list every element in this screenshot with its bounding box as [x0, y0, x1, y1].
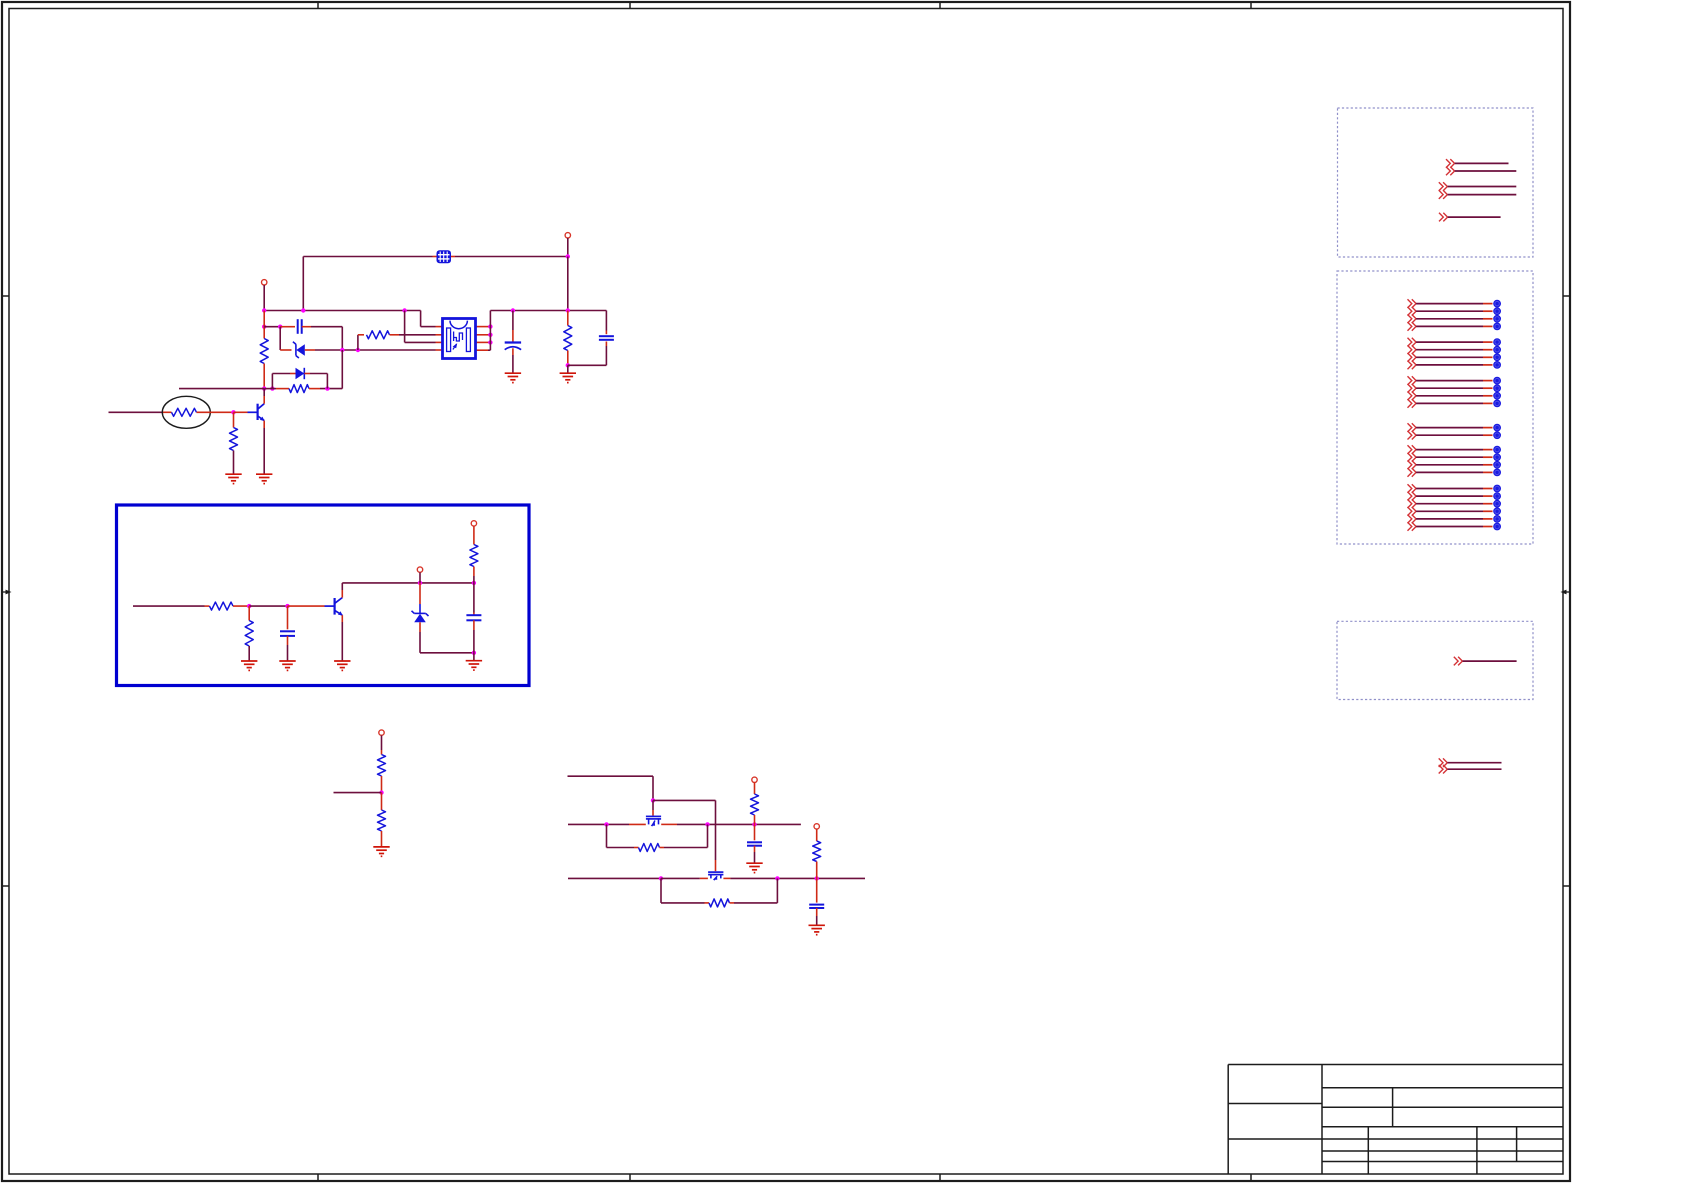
wire to gnd: [567, 365, 569, 373]
wire C4 down: [605, 346, 607, 365]
pin row 3 chevron: [1408, 315, 1417, 324]
port P7: [814, 824, 819, 829]
Q1 emitter stub: [263, 421, 265, 428]
resistor R6: [289, 385, 309, 393]
vertical zener row to base row: [341, 350, 343, 389]
pin dot row 10: [1493, 384, 1501, 392]
pin row 13 chevron: [1408, 423, 1417, 432]
opto pin4 stub: [436, 349, 443, 351]
junction rail/P2: [262, 308, 266, 312]
junction C5 node: [285, 604, 289, 608]
R7 left stub: [205, 605, 210, 607]
pin stub bead right: [451, 256, 455, 258]
R13 top wire: [754, 783, 756, 794]
pin row 18 chevron: [1408, 468, 1417, 477]
R10 top stub: [381, 750, 383, 755]
junction bottom rail/gnd: [472, 651, 476, 655]
opto right bus vertical: [489, 311, 491, 351]
net stub B1: [1439, 182, 1448, 191]
D3 bottom wire: [419, 632, 421, 653]
pin dot row 2: [1493, 307, 1501, 315]
wire P2 down to rail: [263, 285, 265, 311]
opto pin2 stub: [436, 334, 443, 336]
transistor Q2 NPN: [325, 598, 343, 616]
Q2 base stub: [288, 605, 325, 607]
junction base node: [231, 410, 235, 414]
R9 top wire: [473, 526, 475, 544]
centering arrow left: [2, 591, 8, 593]
pin row 9 chevron: [1408, 376, 1417, 385]
gate feed wire top: [568, 775, 654, 777]
junction D2 loop right: [325, 386, 329, 390]
Q1 collector wire: [263, 389, 265, 396]
wire to opto pin1: [421, 326, 436, 328]
R6 left stub: [276, 388, 289, 390]
C5 bottom stub: [287, 636, 289, 645]
ground R5: [225, 474, 241, 483]
M2 source stub: [700, 877, 708, 879]
ground Q2: [334, 661, 350, 670]
capacitor C1: [298, 319, 302, 334]
C4 bottom stub: [605, 342, 607, 347]
title block: [1228, 1065, 1563, 1175]
M1 gate stub: [652, 810, 654, 816]
ellipse marker around R2: [162, 396, 210, 428]
C7 bottom wire: [754, 852, 756, 863]
base stub: [234, 411, 248, 413]
junction D2 loop left: [270, 386, 274, 390]
R15 top wire: [816, 829, 818, 841]
ground divider: [373, 847, 389, 856]
P3 wire: [419, 572, 421, 583]
resistor R3: [367, 331, 390, 339]
pin dot row 14: [1493, 431, 1501, 439]
resistor R8: [245, 621, 253, 647]
C6 bottom stub: [473, 620, 475, 630]
R2 right stub: [197, 411, 234, 413]
gate2 vertical: [715, 800, 717, 860]
pin dot row 8: [1493, 361, 1501, 369]
junction row3 RC column: [815, 876, 819, 880]
pin dot row 6: [1493, 346, 1501, 354]
zone tick marks top/bottom: [317, 2, 319, 9]
pin dot row 1: [1493, 300, 1501, 308]
D2 right wire: [310, 373, 327, 375]
Q2 collector wire: [341, 583, 343, 590]
M2 gate stub: [715, 860, 717, 871]
wire to C1: [264, 326, 280, 328]
junction divider tap: [379, 790, 383, 794]
R11 top stub: [381, 793, 383, 810]
M1 source stub: [629, 823, 646, 825]
R14 right stub: [730, 902, 735, 904]
junction rail/C3: [511, 308, 515, 312]
row3 wire right: [730, 877, 865, 879]
wire down to zener D1: [279, 327, 281, 350]
wire P1 to bead row: [567, 238, 569, 257]
opto-coupler U1: [443, 319, 476, 359]
wire x568 down to rail: [567, 257, 569, 311]
loop2 bottom right: [734, 902, 777, 904]
wire bead row left: [303, 256, 432, 258]
zener diode D3: [412, 604, 429, 622]
net stub A2: [1446, 167, 1455, 176]
C8 top stub: [816, 878, 818, 902]
D2 left wire: [272, 373, 290, 375]
capacitor C7: [747, 842, 762, 845]
loop2 right vertical: [776, 878, 778, 903]
centering arrow right: [1564, 591, 1570, 593]
loop1 bottom left: [607, 847, 635, 849]
junction rail/bead loop: [301, 308, 305, 312]
junction row3 loop right: [775, 876, 779, 880]
junction opto right bus: [488, 324, 492, 328]
ground R8: [241, 661, 257, 670]
wire rail corner down: [605, 311, 607, 331]
D3 top wire: [419, 583, 421, 604]
Q2 emitter wire: [341, 622, 343, 661]
pin row 20 chevron: [1408, 492, 1417, 501]
resistor R12: [639, 844, 660, 852]
net stub B2: [1439, 190, 1448, 199]
resistor R7: [210, 602, 234, 610]
pin row 8 chevron: [1408, 361, 1417, 370]
junction C1/zener branch: [278, 325, 282, 329]
wire R3 to opto pin2: [399, 334, 436, 336]
R7 right stub: [233, 605, 249, 607]
ground C8: [809, 925, 825, 934]
R5 bottom wire: [233, 451, 235, 475]
wire C4 loop bottom: [568, 364, 607, 366]
pin row 1 chevron: [1408, 299, 1417, 308]
opto right pin4 stub: [476, 349, 488, 351]
capacitor C6: [466, 615, 481, 620]
C6 bottom wire: [473, 630, 475, 653]
wire rail to opto pin3: [404, 311, 406, 343]
junction rail/port P3: [418, 581, 422, 585]
port P3: [417, 567, 422, 572]
R11 bottom stub: [381, 831, 383, 847]
ground C5: [279, 661, 295, 670]
pin row 12 chevron: [1408, 399, 1417, 408]
junction zener row/R3 branch: [356, 348, 360, 352]
pin row 16 chevron: [1408, 453, 1417, 462]
pin stub bead left: [433, 256, 437, 258]
D2 loop right vertical: [326, 374, 328, 389]
opto pin1 stub: [436, 326, 443, 328]
main rail left part: [264, 310, 420, 312]
box input wire: [133, 605, 205, 607]
wire to C5 node: [249, 605, 287, 607]
pin dot row 7: [1493, 353, 1501, 361]
C5 top stub: [287, 606, 289, 629]
C5 bottom wire: [287, 645, 289, 661]
input wire left: [109, 411, 163, 413]
C4 top stub: [605, 331, 607, 335]
port P2: [262, 280, 267, 285]
port P4: [471, 521, 476, 526]
junction zener row/C1 loop: [340, 348, 344, 352]
resistor R5: [230, 428, 238, 451]
junction opto right bus: [488, 333, 492, 337]
resistor R10: [378, 755, 386, 777]
zener row wire to opto pin4: [315, 349, 436, 351]
blue highlight box: [117, 505, 530, 686]
junction C1 branch: [262, 325, 266, 329]
ground box right: [466, 661, 482, 670]
resistor R2 (circled): [172, 408, 197, 416]
pin dot row 19: [1493, 485, 1501, 493]
resistor R13: [751, 794, 759, 815]
D3 bottom stub: [419, 622, 421, 632]
wire rail to C3: [512, 311, 514, 331]
ground C3: [505, 373, 521, 382]
M1 drain stub: [661, 823, 677, 825]
capacitor C5: [280, 631, 295, 636]
C1 left stub: [280, 326, 295, 328]
net stub C1: [1439, 213, 1448, 222]
wire rail to C6: [473, 583, 475, 613]
zener diode D1: [293, 342, 305, 358]
pin dot row 17: [1493, 461, 1501, 469]
R2 left stub: [163, 411, 172, 413]
net stub E2: [1439, 765, 1448, 774]
pin dot row 3: [1493, 315, 1501, 323]
wire to opto pin3: [405, 341, 436, 343]
junction rail/R4: [566, 308, 570, 312]
box bottom rail: [420, 652, 474, 654]
pin dot row 12: [1493, 400, 1501, 408]
loop2 bottom left: [661, 902, 705, 904]
C1 right stub: [302, 326, 311, 328]
wire x303 down to rail: [302, 257, 304, 311]
C7 bottom stub: [754, 846, 756, 852]
C8 bottom wire: [816, 916, 818, 925]
wire C3 to gnd: [512, 355, 514, 373]
D2 anode stub: [290, 373, 296, 375]
ground Q1 emitter: [256, 474, 272, 483]
row2 wire right: [677, 823, 801, 825]
ground R4: [560, 373, 576, 382]
P5 wire: [381, 735, 383, 750]
junction R8 node: [247, 604, 251, 608]
C8 bottom stub: [816, 908, 818, 916]
junction row2 RC column: [752, 822, 756, 826]
pin row 4 chevron: [1408, 322, 1417, 331]
R15 bottom stub: [816, 862, 818, 879]
pin row 17 chevron: [1408, 461, 1417, 470]
net stub D1: [1454, 657, 1463, 666]
M1 gate wire: [652, 800, 654, 810]
pin row 2 chevron: [1408, 307, 1417, 316]
R3 left stub: [358, 334, 364, 336]
dashed box 1: [1338, 108, 1534, 257]
pin dot row 13: [1493, 424, 1501, 432]
pin row 22 chevron: [1408, 507, 1417, 516]
pin dot row 9: [1493, 377, 1501, 385]
loop1 bottom right: [664, 847, 708, 849]
pin dot row 22: [1493, 507, 1501, 515]
pin row 23 chevron: [1408, 515, 1417, 524]
M2 drain stub: [723, 877, 730, 879]
loop1 right vertical: [707, 824, 709, 847]
resistor R14: [709, 899, 730, 907]
pin dot row 21: [1493, 500, 1501, 508]
wire bead row right: [455, 256, 568, 258]
R8 bottom wire: [248, 646, 250, 661]
mosfet M1: [646, 816, 661, 826]
junction rail/right column: [472, 581, 476, 585]
port P6: [752, 777, 757, 782]
pin row 11 chevron: [1408, 392, 1417, 401]
wire R1 bottom: [263, 364, 265, 389]
pin dot row 11: [1493, 392, 1501, 400]
R6 right stub: [309, 388, 320, 390]
junction opto right bus: [488, 340, 492, 344]
pin dot row 18: [1493, 469, 1501, 477]
wire to gnd: [473, 653, 475, 661]
junction base row: [262, 386, 266, 390]
mosfet M2: [708, 872, 723, 880]
pin dot row 20: [1493, 492, 1501, 500]
pin row 7 chevron: [1408, 353, 1417, 362]
pin row 10 chevron: [1408, 384, 1417, 393]
opto right pin stub y335: [476, 334, 488, 336]
R4 bottom stub: [567, 351, 569, 366]
wire corner down to zener row: [341, 327, 343, 350]
zone tick marks left/right: [2, 295, 9, 297]
pin row 24 chevron: [1408, 522, 1417, 531]
loop1 left vertical: [606, 824, 608, 847]
pin dot row 24: [1493, 523, 1501, 531]
row2 wire left: [568, 823, 629, 825]
pin row 5 chevron: [1408, 338, 1417, 347]
opto pin3 stub: [436, 341, 443, 343]
gate2 feed wire: [653, 799, 716, 801]
C7 top stub: [754, 824, 756, 840]
pin row 15 chevron: [1408, 445, 1417, 454]
junction rail/opto pin3 branch: [402, 308, 406, 312]
Q2 emitter stub: [341, 615, 343, 622]
box output rail: [342, 582, 474, 584]
junction row2 loop left: [604, 822, 608, 826]
gate feed corner down: [652, 776, 654, 800]
junction bead/P1: [566, 254, 570, 258]
capacitor C3 polarized: [505, 343, 521, 350]
ferrite bead L1: [437, 250, 452, 263]
C3 top stub: [512, 330, 514, 342]
R13 bottom stub: [754, 815, 756, 824]
capacitor C4: [599, 336, 614, 340]
pin row 19 chevron: [1408, 484, 1417, 493]
diode D2: [296, 368, 305, 379]
dashed box 3: [1337, 621, 1533, 699]
R5 top stub: [233, 412, 235, 427]
R4 top stub: [567, 311, 569, 326]
port P5: [379, 730, 384, 735]
resistor R1: [260, 339, 268, 364]
stub R1 top: [263, 311, 265, 339]
feedback row wire left: [179, 388, 264, 390]
net stub A1: [1446, 159, 1455, 168]
opto right pin stub y342: [476, 341, 488, 343]
junction gates: [651, 798, 655, 802]
main rail right part: [490, 310, 606, 312]
capacitor C8: [809, 905, 824, 908]
resistor R9: [470, 545, 478, 567]
opto right pin stub y327: [476, 326, 488, 328]
R3 right stub: [390, 334, 400, 336]
R12 left stub: [634, 847, 639, 849]
dashed box 2: [1337, 271, 1533, 544]
R12 right stub: [660, 847, 665, 849]
D1 anode stub: [305, 349, 315, 351]
junction R4/C4 loop: [566, 363, 570, 367]
wire R6 to corner: [320, 388, 342, 390]
R8 top stub: [248, 606, 250, 620]
pin row 21 chevron: [1408, 499, 1417, 508]
divider tap wire: [334, 792, 382, 794]
R14 left stub: [705, 902, 710, 904]
pin dot row 4: [1493, 323, 1501, 331]
transistor Q1 NPN: [248, 404, 265, 421]
pin row 6 chevron: [1408, 345, 1417, 354]
resistor R11: [378, 810, 386, 831]
C6 top stub: [473, 613, 475, 616]
R9 bottom stub: [473, 567, 475, 577]
loop2 left vertical: [660, 878, 662, 903]
Q1 emitter wire to gnd: [263, 428, 265, 474]
D1 cathode stub: [280, 349, 291, 351]
junction row3 loop left: [659, 876, 663, 880]
C3 bottom stub: [512, 348, 514, 355]
pin dot row 16: [1493, 453, 1501, 461]
wire R3 corner: [357, 335, 359, 350]
pin dot row 15: [1493, 446, 1501, 454]
Q1 collector stub: [263, 396, 265, 404]
D2 cathode stub: [304, 373, 310, 375]
R10 bottom stub: [381, 776, 383, 793]
pin dot row 5: [1493, 338, 1501, 346]
ground C7: [746, 863, 762, 872]
D2 loop left vertical: [271, 374, 273, 389]
rail corner down to opto pin1: [420, 311, 422, 327]
row3 wire left: [568, 877, 661, 879]
wire C1 to corner: [311, 326, 342, 328]
Q2 collector stub: [341, 590, 343, 598]
port P1 VCC top: [565, 233, 570, 238]
net stub E1: [1439, 758, 1448, 767]
pin dot row 23: [1493, 515, 1501, 523]
junction row2 loop right: [705, 822, 709, 826]
resistor R4: [564, 326, 572, 351]
resistor R15: [813, 841, 821, 862]
pin row 14 chevron: [1408, 431, 1417, 440]
